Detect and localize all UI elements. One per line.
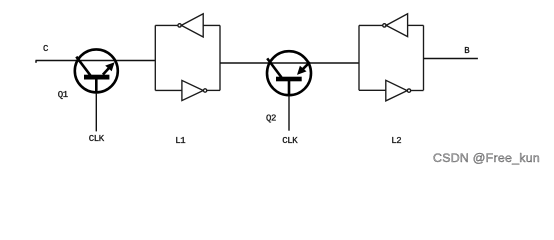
inverter L2 bottom (points right) [386, 80, 407, 101]
wire L1 bottom right [207, 89, 220, 91]
inverter L1 bottom bubble [203, 89, 206, 92]
svg-text:L2: L2 [391, 136, 401, 146]
wire L2 top right [408, 24, 424, 26]
svg-text:CSDN @Free_kun: CSDN @Free_kun [433, 151, 540, 165]
svg-text:CLK: CLK [89, 134, 105, 144]
wire L1 right vertical [219, 25, 221, 90]
wire L2 right vertical [423, 25, 425, 90]
inverter L2 top (points left) [386, 14, 408, 37]
latch L1 [155, 14, 220, 101]
wire L1 top right [203, 24, 220, 26]
inverter L1 bottom (points right) [182, 80, 203, 100]
transistor Q2 [267, 51, 311, 96]
inverter L2 bottom bubble [407, 89, 410, 92]
svg-text:C: C [43, 44, 49, 54]
wire input start tick [35, 61, 37, 63]
wire L1 top left [155, 24, 178, 26]
wire L2 left vertical [358, 25, 360, 90]
wire L1 left vertical [154, 25, 156, 90]
wire L2 bottom left [359, 89, 386, 91]
inverter L1 top bubble [178, 24, 181, 27]
wire Q2 base lead to CLK [288, 96, 290, 131]
wire Q1 base lead to CLK [95, 93, 97, 132]
wire L2 top left [359, 24, 383, 26]
inverter L1 top (points left) [181, 14, 203, 37]
svg-text:B: B [464, 46, 470, 56]
svg-text:L1: L1 [175, 136, 185, 146]
transistor Q1 [75, 49, 118, 93]
svg-text:CLK: CLK [282, 136, 298, 146]
svg-text:Q2: Q2 [266, 113, 276, 123]
inverter L2 top bubble [383, 24, 386, 27]
wire input C to latch L1 (passes through Q1) [36, 60, 156, 62]
wire L1 to latch L2 (passes through Q2) [220, 62, 359, 64]
svg-text:Q1: Q1 [58, 90, 68, 100]
wire output B [424, 58, 478, 60]
latch L2 [359, 14, 424, 101]
wire L1 bottom left [155, 89, 182, 91]
wire L2 bottom right [411, 90, 424, 92]
